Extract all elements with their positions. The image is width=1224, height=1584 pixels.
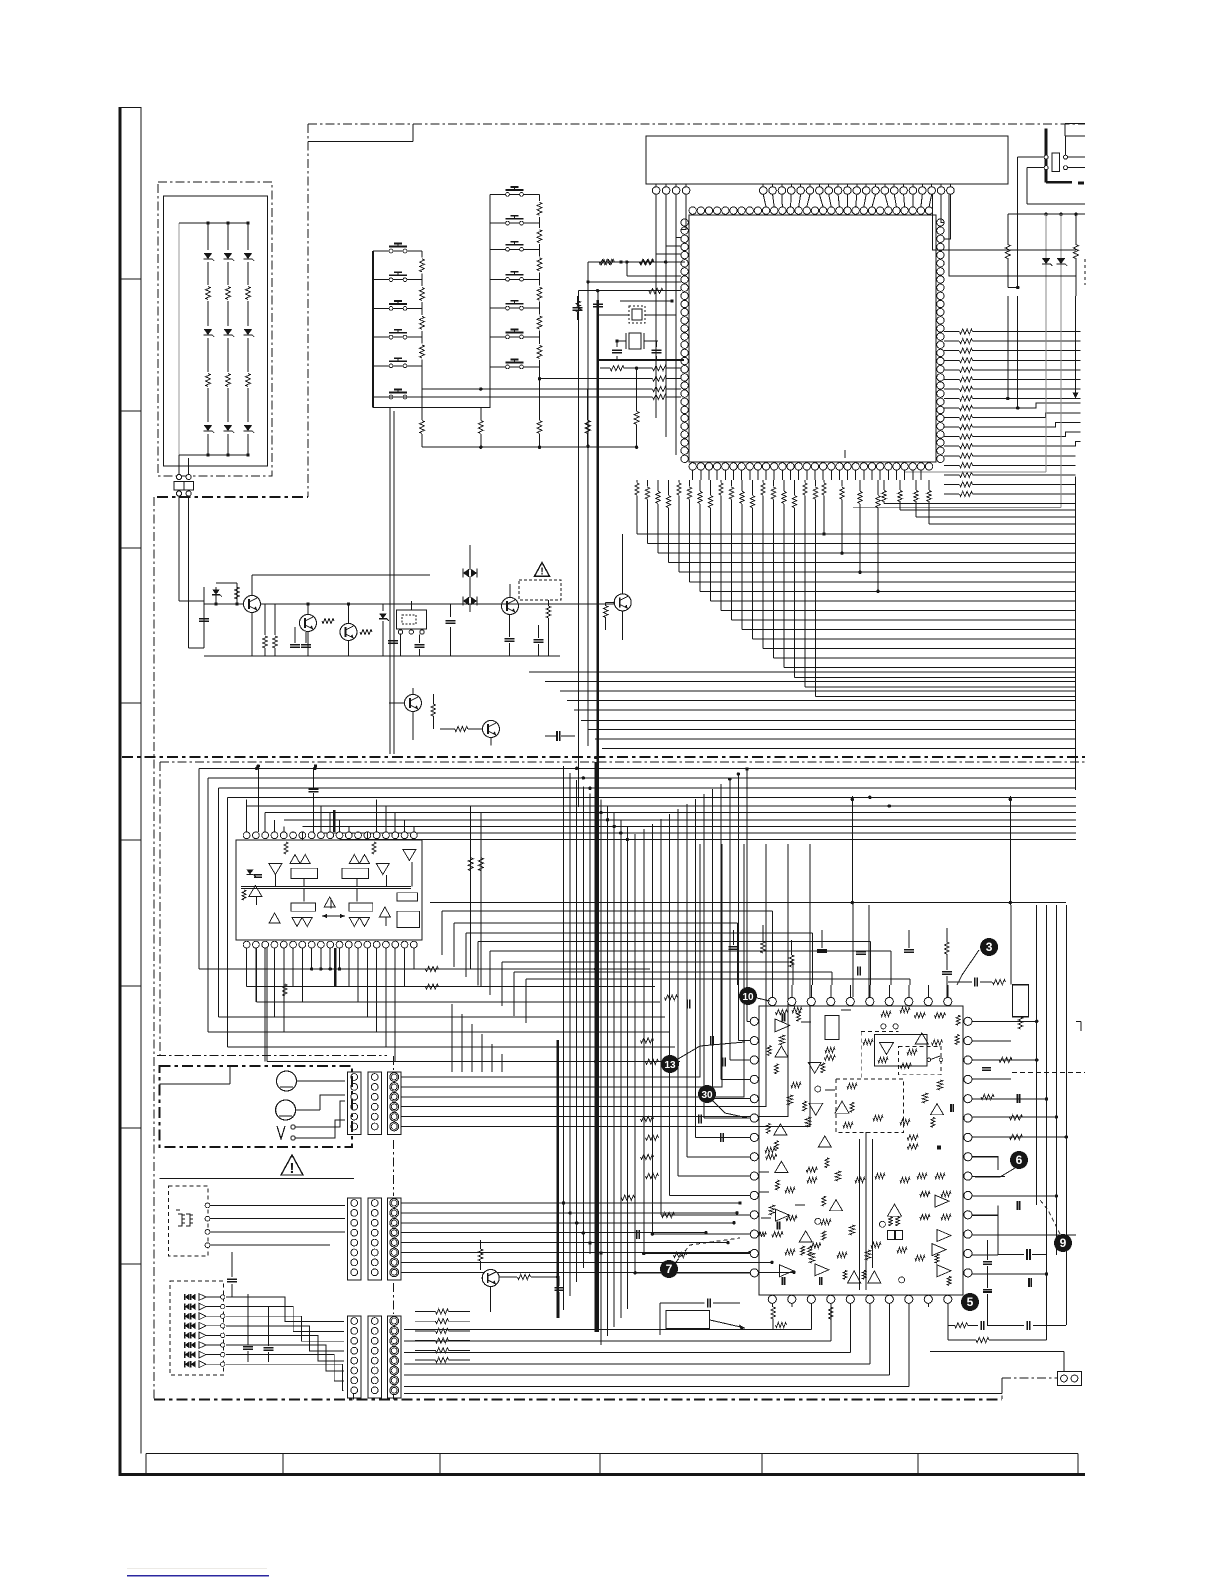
resistor stack right of CN4 [415,1309,470,1363]
microcontroller IC1 [689,215,936,462]
pull-up resistor row [587,366,681,449]
antenna connector CN1 [174,455,204,648]
junction dots [556,756,1012,1279]
key switch column S1-S6 [373,244,491,408]
lower board outline top edge [160,762,1085,1055]
CN2 riser verticals [452,1004,502,1072]
system control transistor row [199,583,614,656]
connector CN3 group [348,1198,402,1280]
speaker connector CN5 [930,1340,1082,1385]
display driver block [646,136,1008,184]
IC3 bottom network [771,1303,948,1341]
decoupling caps near IC1 [573,290,603,360]
microphone block [160,1066,353,1147]
remote sensor block [170,1281,225,1375]
power fuse block [1018,123,1085,204]
wires reset row [252,545,510,598]
IC3 left components [622,995,726,1258]
svg-text:30: 30 [701,1090,713,1101]
trunk verticals lower [558,762,628,1345]
IC1 pins [681,207,944,470]
wires display to IC1 [656,194,950,254]
Q8 [478,1240,563,1318]
svg-text:9: 9 [1060,1236,1067,1250]
callout 10 [739,987,770,1005]
right edge rail [1006,296,1078,790]
FM antenna diode block outline [158,182,272,476]
svg-text:!: ! [290,1161,295,1177]
IC3 left fan verticals [635,769,750,1273]
reset IC IC4 [379,601,427,656]
IC1 right pin resistor fan [944,329,1080,497]
warning mark 2 [160,1155,355,1179]
line input block [169,1186,346,1256]
IC2 top wires [247,764,414,839]
CN4 to IC3 bottom lines [404,1303,1002,1393]
page border bottom + title table [119,1454,1086,1475]
surge network D10 D11 [853,157,1085,508]
bus lines below divider [199,767,1076,840]
IC1 left pin wires [578,238,681,455]
diode matrix D1-D9 [179,221,254,456]
bottom left cap feed [660,1299,740,1336]
Q4 with protection [420,563,561,657]
crystal X2 [598,333,684,360]
middle vertical dash-dot [157,1055,394,1399]
bus drops [390,262,598,1332]
callout 13 [661,1042,745,1073]
svg-text:10: 10 [742,992,754,1003]
IC3 supply caps [729,903,952,997]
page border left [119,107,142,1476]
sensor caps [227,1252,274,1362]
right vertical rails [851,796,1067,1340]
left wrap-around loops [199,768,680,1061]
IC2 right side risers [468,806,483,987]
svg-text:7: 7 [666,1262,673,1276]
IC1 bottom pin fan [635,470,1076,696]
callout 30 [698,1085,748,1118]
IC2 pins [243,832,417,948]
board outline (bottom section divider) [122,756,1085,758]
bus lines above divider [529,672,1076,749]
callout 3 [957,938,998,985]
key switch column S7-S13 [490,187,544,408]
svg-text:3: 3 [986,940,993,954]
IC3 right pin wires [972,1020,1081,1276]
upper horizontal lines above IC3 [430,903,1066,1023]
Q2 Q3 bias network [204,602,420,656]
svg-text:!: ! [540,567,543,578]
footer link line [127,1569,269,1576]
board outline (top section) [157,124,1085,497]
service box [666,1311,745,1330]
Q5 [603,534,631,640]
clamp diodes D12 D13 [446,563,478,656]
connector CN2 group [348,1072,402,1134]
callout 6 [975,1151,1028,1177]
connector wires [226,844,810,1391]
Q6 Q7 lower pair [389,648,575,746]
IC2 interior buffers [241,842,420,928]
svg-text:5: 5 [967,1295,974,1309]
IC3 pins [750,997,972,1303]
callout 5 [961,1293,979,1311]
IC1 marker [844,450,846,458]
right edge hooks lower [1076,1021,1081,1255]
IC2 input selector [236,840,422,940]
IC3 right side network [948,954,1085,1343]
connector CN4 group [348,1316,402,1398]
svg-text:13: 13 [664,1060,676,1071]
callout 7 [660,1238,740,1278]
IC3 top pin stubs [772,985,948,997]
display driver pins [652,184,954,194]
IC3 sound processor [759,1006,963,1295]
key matrix return wires [373,367,653,449]
ceramic filter X1 [598,259,685,323]
svg-text:6: 6 [1016,1153,1023,1167]
IC2 bold riser [333,810,336,987]
display box right wires [932,194,1076,276]
lower board outline [154,497,1057,1400]
IC3 interior amps [758,1007,960,1290]
IC2 bottom wires [247,948,481,1062]
callout 9 [1040,1200,1072,1252]
